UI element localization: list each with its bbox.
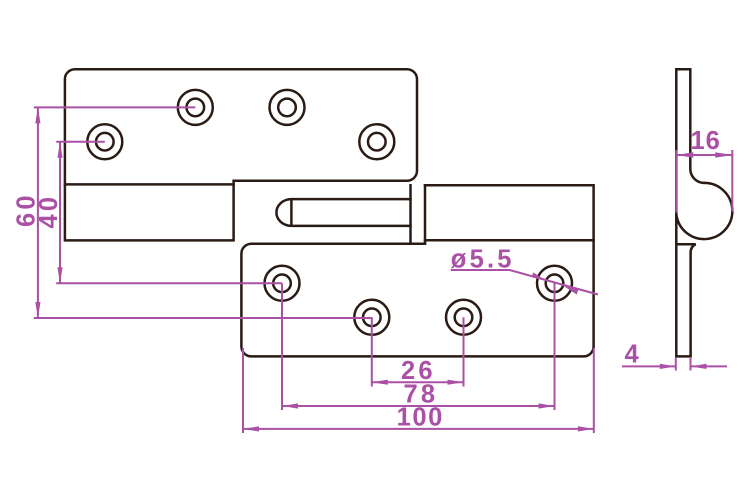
bottom leaf screw hole 1 inner: [273, 275, 291, 293]
top leaf screw hole D outer: [359, 124, 394, 159]
dim 16 right arrow: [715, 152, 732, 157]
bottom leaf screw hole 3 outer: [446, 300, 481, 335]
extension line hole 3: [463, 317, 465, 386]
diameter leader line: [451, 270, 598, 295]
extension line hole 2: [371, 317, 373, 386]
dim 100 left arrow: [243, 426, 259, 431]
extension line hole 4: [554, 283, 556, 410]
dim 16 left arrow: [676, 152, 693, 157]
dim 16 line: [676, 154, 732, 156]
top hinge leaf outline with left knuckle: [65, 69, 417, 240]
side view back edge and upper leaf edge: [676, 69, 704, 356]
svg-text:4: 4: [625, 340, 642, 368]
dim 4 right arrow: [691, 364, 707, 369]
side view knuckle curl circle: [677, 183, 733, 239]
extension line plate left end: [242, 348, 244, 433]
top leaf screw hole B inner: [278, 99, 296, 117]
hinge pin with rounded head: [276, 199, 410, 226]
extension line hole 1: [281, 283, 283, 410]
dim 100 right arrow: [578, 426, 594, 431]
dim 16 left extension: [675, 150, 677, 213]
svg-text:40: 40: [35, 194, 63, 229]
dim 100 line: [243, 428, 594, 430]
dim 40 bottom leader to hole 1: [56, 282, 282, 284]
dim 26 left arrow: [372, 380, 388, 385]
dim 40 bottom arrow: [57, 267, 62, 283]
side view lower leaf edge and curl lip: [676, 244, 695, 356]
dim 60 top arrow: [35, 107, 40, 123]
extension line plate right end: [593, 348, 595, 433]
dim 40 top leader to hole C: [56, 141, 105, 143]
dim 40 top arrow: [57, 142, 62, 158]
top leaf screw hole A outer: [178, 90, 213, 125]
bottom leaf screw hole 2 inner: [363, 309, 381, 327]
bottom leaf knuckle joint line: [425, 239, 594, 242]
diameter lower arrow: [564, 286, 578, 294]
dim 26 right arrow: [448, 380, 464, 385]
dim 78 right arrow: [539, 403, 555, 408]
dim 60 bottom arrow: [35, 302, 40, 318]
svg-text:16: 16: [691, 127, 721, 155]
dim 60 bottom leader to hole 2: [34, 317, 372, 319]
dim 26 line: [372, 381, 464, 383]
bottom hinge leaf outline with right knuckle: [241, 185, 593, 356]
bottom leaf screw hole 4 inner: [546, 275, 564, 293]
svg-text:ø5.5: ø5.5: [451, 246, 515, 274]
top leaf screw hole C outer: [87, 124, 122, 159]
dim 60 line: [37, 107, 39, 318]
top leaf screw hole A inner: [187, 99, 205, 117]
top leaf screw hole B outer: [270, 90, 305, 125]
dim 78 left arrow: [282, 403, 298, 408]
diameter upper arrow: [532, 272, 546, 280]
dim 16 right extension: [731, 150, 733, 212]
dim 4 left arrow: [660, 364, 676, 369]
dim 40 line: [59, 142, 61, 284]
dim 4 right extension: [690, 358, 692, 371]
bottom leaf screw hole 4 outer: [537, 266, 572, 301]
bushing collar edges: [411, 185, 426, 243]
bottom leaf screw hole 2 outer: [354, 300, 389, 335]
dim 4 right line: [691, 365, 728, 367]
svg-text:100: 100: [397, 404, 444, 432]
top leaf screw hole D inner: [368, 133, 386, 151]
dim 78 line: [282, 405, 555, 407]
dim 60 top leader to hole A: [34, 106, 196, 108]
top leaf knuckle joint line: [65, 183, 234, 186]
dim 4 left extension: [675, 358, 677, 371]
bottom leaf screw hole 3 inner: [455, 309, 473, 327]
bottom leaf screw hole 1 outer: [265, 266, 300, 301]
dim 4 left line: [622, 365, 676, 367]
top leaf screw hole C inner: [96, 133, 114, 151]
